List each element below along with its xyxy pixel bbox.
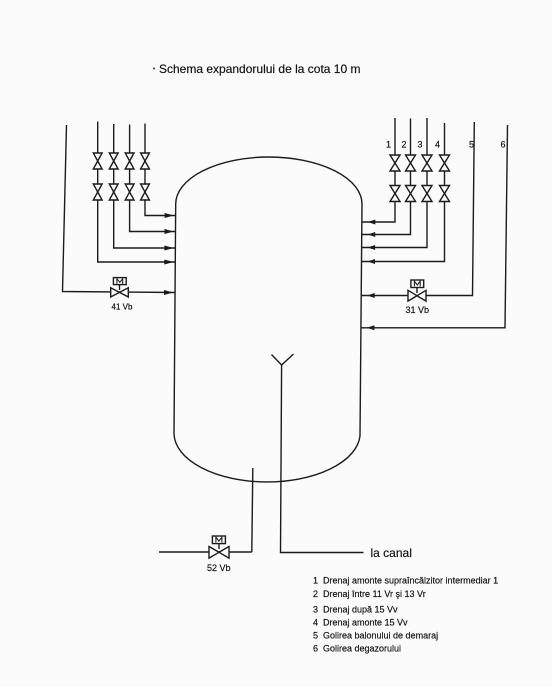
arrow into vessel (41 Vb line): [164, 290, 173, 295]
valve 31 Vb stem: [416, 288, 418, 294]
svg-text:2: 2: [402, 140, 407, 150]
svg-text:Golirea balonului de demaraj: Golirea balonului de demaraj: [323, 630, 438, 640]
arrow into vessel from right column 4: [368, 259, 376, 264]
valve 41 Vb stem: [119, 285, 121, 290]
wire: right column 1: [362, 118, 395, 222]
svg-text:Drenaj amonte 15 Vv: Drenaj amonte 15 Vv: [323, 618, 408, 628]
valve 31 Vb body: [408, 290, 426, 301]
wire: la canal downcomer: [281, 365, 364, 553]
svg-text:Schema expandorului de la cota: Schema expandorului de la cota 10 m: [159, 62, 360, 76]
legend item 5: [313, 630, 438, 640]
valve 31 Vb motor box: [411, 280, 424, 288]
valve 52 Vb body: [209, 547, 229, 559]
vessel shell: [174, 157, 362, 482]
valve R4 upper: [440, 155, 450, 171]
arrow into vessel from right column 1: [368, 220, 376, 225]
arrow into vessel (31 Vb line): [367, 293, 375, 298]
svg-text:Drenaj între 11 Vr şi 13 Vr: Drenaj între 11 Vr şi 13 Vr: [323, 589, 426, 599]
wire: left column 2: [114, 124, 176, 248]
wire: left column 4: [145, 124, 176, 216]
svg-text:1: 1: [313, 576, 318, 586]
valve L3 upper: [125, 153, 134, 169]
valve R3 upper: [422, 155, 432, 171]
wire: left column 1: [98, 122, 176, 263]
legend item 4: [313, 618, 408, 628]
legend item 2: [313, 589, 426, 599]
valve R2 lower: [406, 186, 416, 202]
valve R3 lower: [422, 186, 432, 202]
wire: drain pipe from vessel bottom: [252, 468, 253, 552]
valve L2 lower: [109, 184, 118, 200]
svg-text:Golirea degazorului: Golirea degazorului: [323, 643, 401, 653]
valve R1 lower: [390, 186, 400, 202]
wire: right column 2: [362, 119, 411, 235]
svg-text:la canal: la canal: [371, 546, 412, 560]
valve 52 Vb motor box: [212, 536, 225, 544]
valve 52 Vb stem: [218, 544, 220, 550]
valve L2 upper: [109, 153, 118, 169]
wire: right column 3: [362, 118, 427, 248]
valve R1 upper: [390, 155, 400, 171]
svg-text:5: 5: [469, 140, 474, 150]
svg-text:1: 1: [386, 140, 391, 150]
internal vent Y: [272, 354, 294, 365]
svg-text:6: 6: [501, 140, 506, 150]
arrow into vessel (line 6): [367, 325, 375, 330]
title dot: [153, 68, 155, 70]
svg-text:5: 5: [313, 630, 318, 640]
arrow into vessel from right column 2: [368, 232, 376, 237]
valve L4 upper: [141, 153, 150, 169]
legend item 6: [313, 643, 401, 653]
wire: line 6: [361, 125, 508, 328]
svg-text:Drenaj amonte supraîncălzitor: Drenaj amonte supraîncălzitor intermedia…: [323, 576, 498, 586]
wire: left column 3: [130, 125, 176, 232]
valve L4 lower: [141, 184, 150, 200]
wire: line 5: [361, 122, 474, 296]
svg-text:4: 4: [435, 140, 440, 150]
valve L3 lower: [125, 184, 134, 200]
svg-text:2: 2: [313, 589, 318, 599]
svg-text:4: 4: [313, 618, 318, 628]
svg-text:31 Vb: 31 Vb: [406, 305, 430, 315]
valve R4 lower: [440, 186, 450, 202]
arrow into vessel from left column 3: [165, 229, 174, 234]
valve 41 Vb motor box: [113, 278, 126, 285]
legend item 3: [313, 605, 398, 615]
valve L1 upper: [93, 153, 102, 169]
svg-text:3: 3: [313, 605, 318, 615]
valve L1 lower: [93, 184, 102, 200]
svg-text:41 Vb: 41 Vb: [112, 303, 133, 312]
svg-text:52 Vb: 52 Vb: [207, 563, 231, 573]
valve 41 Vb body: [111, 288, 129, 297]
wire: left main header: [63, 125, 176, 293]
arrow into vessel from right column 3: [368, 245, 376, 250]
svg-text:6: 6: [313, 643, 318, 653]
arrow into vessel from left column 2: [164, 246, 173, 251]
wire: drain header: [159, 551, 252, 553]
arrow into vessel from left column 4: [165, 213, 174, 218]
legend item 1: [313, 576, 498, 586]
arrow into vessel from left column 1: [164, 260, 173, 265]
valve R2 upper: [406, 155, 416, 171]
wire: right column 4: [362, 123, 445, 262]
svg-text:3: 3: [418, 140, 423, 150]
svg-text:Drenaj după 15 Vv: Drenaj după 15 Vv: [323, 605, 398, 615]
